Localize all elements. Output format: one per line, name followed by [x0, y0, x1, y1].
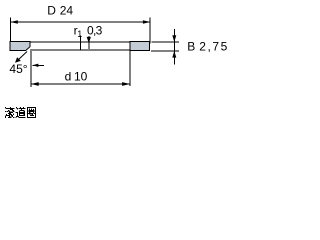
- svg-text:d: d: [65, 70, 72, 84]
- svg-text:B: B: [187, 40, 195, 54]
- washer silhouette bottom edge: [30, 49, 130, 51]
- bore d arrow left: [31, 82, 39, 86]
- caption 滚道圈 (pixel glyphs): [5, 107, 36, 118]
- bore d extension line left: [30, 51, 32, 87]
- bore d extension line right: [129, 51, 131, 86]
- bore d dimension line: [31, 83, 130, 85]
- bore d arrow right: [122, 82, 130, 86]
- svg-text:45°: 45°: [9, 62, 27, 76]
- chamfer 45 leader arrowhead: [15, 57, 21, 63]
- dimension D 24 line: [11, 21, 151, 23]
- svg-text:D: D: [47, 4, 56, 18]
- washer right cross-section: [130, 42, 150, 51]
- thickness B arrow bottom: [172, 51, 176, 58]
- dimension D 24 extension line right: [149, 18, 151, 44]
- dimension D 24 extension line left: [10, 18, 12, 42]
- fillet r1 leader line: [79, 36, 81, 51]
- chamfer 45 horizontal arrow tail: [33, 64, 44, 66]
- svg-text:24: 24: [60, 4, 74, 18]
- thickness B extension line top: [152, 41, 180, 43]
- svg-text:10: 10: [74, 70, 88, 84]
- dimension D 24 arrow left: [11, 20, 18, 24]
- chamfer 45 horizontal arrowhead: [32, 64, 38, 67]
- washer silhouette top edge: [30, 41, 130, 43]
- svg-text:0,3: 0,3: [87, 23, 103, 37]
- fillet 0,3 leader line: [88, 36, 90, 49]
- thickness B dimension line: [173, 29, 175, 64]
- washer left cross-section (chamfered bore corner): [10, 42, 30, 51]
- svg-text:2,75: 2,75: [199, 40, 229, 54]
- thickness B extension line bottom: [151, 50, 179, 52]
- fillet 0,3 leader arrowhead: [87, 37, 91, 43]
- dimension D 24 arrow right: [143, 20, 150, 24]
- chamfer 45 leader line: [17, 52, 27, 62]
- thickness B arrow top: [172, 35, 176, 42]
